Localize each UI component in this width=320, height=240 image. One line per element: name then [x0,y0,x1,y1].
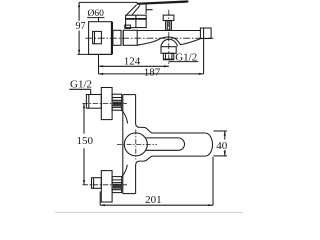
escutcheon flange rect [89,22,112,55]
flange bottom extension line [78,53,112,55]
diverter knob cap [163,15,174,20]
stem right edge lower [136,161,140,194]
dim 40 label background [216,140,228,150]
handle base seam [126,18,147,20]
valve body block [123,30,137,45]
top union connector [112,94,122,110]
page bottom separator line [55,211,243,213]
G1/2 leader underline front view [69,88,90,90]
spout slot bottom edge [146,149,179,151]
bottom union body curve [122,165,128,177]
dim 124 arrow left [99,65,104,67]
body bottom edge with step [140,156,205,161]
shower outlet thread end [163,58,173,60]
spout bottom profile with diverter dome [137,37,200,45]
bottom union connector hatch lines [112,180,122,190]
handle lever bar [136,0,188,5]
top union connector hatch lines [112,98,122,108]
dim 124 dimension line [99,65,169,67]
dim 150 arrow up [83,104,85,109]
dim 201 dimension line [100,204,213,206]
shower outlet thread inner walls [166,53,172,59]
body right rounded cap [205,133,212,156]
stem right edge upper [136,95,140,128]
handle neck back edge [126,5,136,16]
bottom union nut [101,171,112,202]
top union thread [86,95,101,109]
dim 187 arrow right [199,73,204,75]
svg-text:97: 97 [76,21,86,32]
handle base divider [135,15,137,27]
dim 40 dimension line [224,131,226,156]
stem top edge [123,94,136,96]
dim 40 bottom extension line [214,155,228,157]
dim 150 arrow down [83,180,85,185]
top union thread double edge [88,95,90,109]
diverter dome inner arc [161,39,178,46]
escutcheon flange inner right edge [111,22,113,55]
shower outlet thread [163,53,173,59]
dim 187 dimension line [99,73,204,75]
shower outlet nut [161,47,176,54]
G1/2 leader drop front view [90,89,92,94]
dim 187 arrow left [99,73,104,75]
stem left edge [122,95,124,194]
spout top edge [137,30,200,32]
dim 40 arrow down [224,151,226,156]
bottom union connector dark thread band [113,184,122,189]
G1/2 leader underline top view [169,61,199,63]
spout end cap divider [203,28,205,39]
svg-text:124: 124 [124,55,141,67]
svg-text:150: 150 [77,135,94,147]
spout end cap [200,28,211,39]
Ø60 leader underline [87,17,104,19]
svg-text:40: 40 [216,140,228,152]
diverter knob stem [166,21,172,31]
handle base [126,15,147,27]
dim 150 dimension line [83,103,85,184]
spout slot right cap [178,138,184,150]
cartridge circle [124,133,147,156]
cartridge crosshair vertical [135,130,137,160]
body joint double lines [121,30,123,45]
top union body curve [122,110,128,123]
vertical centerline of outlet [168,10,170,67]
wall union rect [93,31,102,43]
bottom union thread double edge [93,178,95,189]
dim 97 vertical dimension line [78,2,80,54]
body step cylinder [113,30,121,45]
handle base foot [125,25,131,28]
diverter knob stem inner walls [167,21,170,31]
handle front tick [146,4,153,14]
body top edge with step [140,127,205,133]
horizontal centerline of body [86,37,214,39]
dim 187 right extension line [203,39,205,74]
handle neck front edge [132,5,140,15]
bottom union connector [112,177,122,193]
dim 97 arrow down [78,50,80,55]
dim 124 arrow right [164,65,169,67]
dim 201 right extension line [212,157,214,205]
bottom union thread [92,178,102,189]
dim 40 top extension line [214,130,228,132]
bottom union centerline [83,184,128,186]
dim 201 arrow right [208,204,213,206]
cartridge crosshair horizontal [117,143,157,145]
dim 201 left extension line [99,192,101,206]
dim 124/187 left extension line [98,54,100,74]
svg-text:187: 187 [144,67,161,79]
wall union double left edge [94,31,96,43]
spout slot top edge [145,137,178,139]
svg-text:201: 201 [145,194,162,206]
dim 40 arrow up [224,131,226,136]
dim 97 arrow up [78,3,80,8]
dim 97 top extension line [79,1,137,3]
Ø60 leader drop [98,18,100,22]
top union connector dark thread band [113,102,122,107]
top union centerline [83,102,128,104]
top union nut [101,88,112,120]
stem bottom edge [123,193,136,195]
dim 201 arrow left [100,204,105,206]
